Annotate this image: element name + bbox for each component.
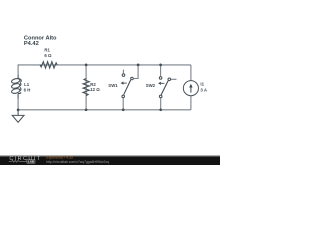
wire SW2 common lead bbox=[160, 98, 162, 110]
node junction dot top R2 bbox=[85, 64, 88, 67]
wire top from node A to node B bbox=[18, 65, 191, 74]
svg-text:R2: R2 bbox=[90, 82, 96, 87]
node junction dot bottom SW2 bbox=[159, 108, 162, 111]
node junction dot top SW1 bbox=[137, 64, 140, 67]
node junction dot top SW2 bbox=[159, 64, 162, 67]
wire SW2 right floating stub bbox=[171, 78, 176, 80]
node junction dot bottom ground bbox=[17, 108, 20, 111]
switch SW2 actuator arrow bbox=[159, 82, 164, 84]
resistor R2 bbox=[83, 78, 89, 95]
wire R2 branch bbox=[85, 65, 87, 110]
switch SW1 lever bbox=[124, 80, 131, 95]
switch SW1 actuator arrow bbox=[122, 82, 127, 84]
svg-text:I1: I1 bbox=[200, 81, 204, 86]
wire SW1 right throw link bbox=[134, 65, 138, 79]
switch SW1 bbox=[122, 74, 133, 98]
wire bottom ground net bbox=[18, 99, 191, 110]
svg-text:R1: R1 bbox=[44, 47, 50, 52]
svg-text:6 Ω: 6 Ω bbox=[44, 53, 52, 58]
resistor R1 bbox=[40, 62, 57, 68]
inductor L1 bbox=[11, 74, 21, 98]
svg-text:3 A: 3 A bbox=[200, 88, 207, 93]
svg-text:L1: L1 bbox=[24, 82, 30, 87]
svg-text:Experience / 4.33: Experience / 4.33 bbox=[46, 156, 73, 160]
wire right rail upper (to I1 top) bbox=[190, 65, 192, 81]
svg-text:LAB: LAB bbox=[28, 160, 35, 164]
wire right rail lower (from I1 bottom) bbox=[190, 96, 192, 110]
node junction dot bottom R2 bbox=[85, 108, 88, 111]
svg-text:http://circuitlab.com/c7wq7gga: http://circuitlab.com/c7wq7gga6h996w2xq bbox=[46, 160, 109, 164]
svg-text:12 Ω: 12 Ω bbox=[90, 87, 100, 92]
svg-text:6 H: 6 H bbox=[24, 88, 31, 93]
svg-text:P4.42: P4.42 bbox=[24, 41, 39, 47]
wire SW1 common lead bbox=[122, 98, 124, 110]
current source I1 bbox=[183, 81, 198, 96]
ground bbox=[12, 110, 24, 123]
switch SW2 lever bbox=[161, 81, 168, 95]
wire SW2 center throw stub bbox=[160, 65, 162, 76]
switch SW2 bbox=[159, 77, 170, 98]
wire SW1 floating stub bbox=[122, 70, 124, 74]
svg-text:SW1: SW1 bbox=[108, 83, 118, 88]
current source I1 arrow bbox=[190, 87, 192, 92]
svg-text:SW2: SW2 bbox=[146, 83, 156, 88]
footer logo LAB box bbox=[27, 160, 35, 164]
node junction dot bottom SW1 bbox=[122, 108, 125, 111]
footer logo zigzag bbox=[9, 160, 27, 162]
